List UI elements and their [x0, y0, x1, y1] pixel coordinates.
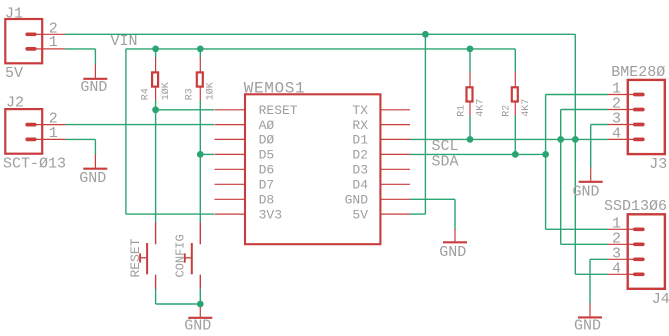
wire VIN horizontal [65, 33, 575, 35]
junction 3V3 / R1 [467, 46, 474, 53]
svg-text:GND: GND [79, 170, 106, 187]
svg-text:1: 1 [49, 125, 58, 142]
push button RESET S1 [140, 223, 156, 290]
svg-text:R4: R4 [140, 88, 151, 100]
svg-text:SDA: SDA [432, 154, 459, 171]
wire SCL (D1) [410, 138, 608, 140]
wire WEMOS 5V to VIN [410, 213, 425, 215]
wire button CONFIG bottom [199, 289, 201, 305]
svg-text:4: 4 [612, 260, 621, 277]
wire 3V3 rail vertical [125, 49, 127, 214]
ground (buttons) [184, 304, 212, 335]
svg-text:D3: D3 [352, 163, 368, 178]
wire J4 pin3 to ground [590, 258, 608, 260]
wire SDA (D2) [410, 153, 546, 155]
svg-text:D1: D1 [352, 133, 368, 148]
svg-text:1ØK: 1ØK [204, 82, 216, 100]
svg-text:AØ: AØ [259, 118, 275, 133]
junction SCL / R1 [467, 136, 474, 143]
svg-text:1ØK: 1ØK [160, 82, 172, 100]
svg-text:R1: R1 [456, 105, 467, 117]
resistor R4 [152, 49, 158, 110]
wire 3V3 rail horizontal [126, 48, 515, 50]
svg-text:GND: GND [574, 317, 601, 334]
wire BME280 pin3 to ground [591, 124, 608, 126]
resistor R2 [512, 49, 518, 154]
svg-text:5V: 5V [5, 65, 23, 82]
wire VIN vertical drop right [574, 34, 576, 274]
wire RESET net horizontal [156, 109, 214, 111]
ground (J2) [79, 154, 107, 187]
svg-text:RX: RX [352, 118, 368, 133]
svg-text:DØ: DØ [259, 133, 275, 148]
svg-text:J1: J1 [5, 5, 23, 22]
wire WEMOS GND to ground [410, 198, 455, 200]
svg-text:SCT-Ø13: SCT-Ø13 [3, 156, 66, 173]
svg-text:D5: D5 [259, 148, 275, 163]
junction SCL / VIN drop [572, 136, 579, 143]
ground (BME280) [573, 167, 603, 200]
ground (WEMOS) [439, 229, 467, 261]
IC WEMOS1 [215, 94, 411, 244]
wire RESET net vertical to button [155, 110, 157, 224]
wire J2 pin2 to A0 [66, 124, 215, 126]
svg-text:RESET: RESET [128, 238, 143, 277]
svg-text:D8: D8 [259, 193, 275, 208]
svg-text:R3: R3 [185, 88, 196, 100]
junction buttons ground [197, 301, 204, 308]
wire BME280 pin1 to SDA [546, 94, 608, 96]
junction RESET / R4 [152, 106, 159, 113]
svg-text:GND: GND [184, 318, 211, 335]
svg-text:GND: GND [345, 193, 369, 208]
svg-text:4K7: 4K7 [521, 99, 532, 117]
connector J4 (SSD1306) [608, 214, 665, 288]
svg-text:D2: D2 [352, 148, 368, 163]
junction D5 / R3 [197, 151, 204, 158]
wire 3V3 rail to WEMOS 3V3 pin [126, 213, 214, 215]
svg-text:1: 1 [49, 34, 58, 51]
svg-text:R2: R2 [502, 105, 513, 117]
wire J1 pin1 to ground [65, 48, 95, 50]
svg-text:BME28Ø: BME28Ø [611, 64, 665, 81]
svg-text:GND: GND [80, 79, 107, 96]
svg-text:4: 4 [612, 126, 621, 143]
connector J1 [5, 19, 65, 63]
wire VIN to J4 pin4 [575, 273, 608, 275]
connector J2 [5, 109, 65, 154]
junction 3V3 / R3 [197, 46, 204, 53]
svg-text:GND: GND [573, 183, 600, 200]
wire D5 net horizontal [200, 153, 214, 155]
junction VIN / 5V [422, 31, 429, 38]
svg-text:SCL: SCL [432, 138, 459, 155]
wire BME280 pin2 to SCL [561, 109, 608, 111]
junction SDA / R2 [512, 151, 519, 158]
svg-text:D7: D7 [259, 178, 275, 193]
ground (SSD1306) [574, 303, 602, 334]
svg-text:RESET: RESET [259, 103, 298, 118]
svg-text:D4: D4 [352, 178, 368, 193]
push button CONFIG S2 [185, 223, 201, 290]
svg-text:5V: 5V [352, 207, 368, 222]
resistor R3 [197, 49, 203, 154]
junction SCL / BME pin2 [557, 136, 564, 143]
svg-text:J4: J4 [652, 291, 669, 308]
resistor R1 [467, 49, 473, 139]
svg-text:4K7: 4K7 [476, 99, 487, 117]
wire D5 net vertical to button [199, 154, 201, 223]
svg-text:CONFIG: CONFIG [174, 234, 188, 277]
junction 3V3 / R4 [152, 46, 159, 53]
svg-text:VIN: VIN [111, 33, 138, 50]
svg-text:3V3: 3V3 [259, 207, 282, 222]
svg-text:J3: J3 [649, 156, 667, 173]
junction SDA / BME pin1 [542, 151, 549, 158]
svg-text:D6: D6 [259, 163, 275, 178]
wire J2 pin1 to ground [66, 138, 96, 140]
svg-text:WEMOS1: WEMOS1 [244, 80, 306, 98]
svg-text:J2: J2 [6, 94, 24, 111]
connector J3 (BME280) [608, 80, 665, 154]
svg-text:TX: TX [352, 103, 368, 118]
svg-text:SSD13Ø6: SSD13Ø6 [604, 198, 667, 215]
ground (J1) [80, 64, 107, 96]
svg-text:GND: GND [439, 244, 466, 261]
wire button RESET bottom [155, 289, 157, 305]
